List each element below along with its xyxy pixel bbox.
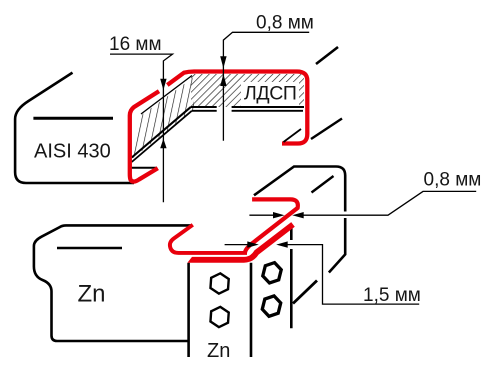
svg-text:0,8 мм: 0,8 мм — [256, 13, 314, 34]
svg-text:Zn: Zn — [78, 281, 106, 308]
svg-text:16 мм: 16 мм — [109, 34, 162, 55]
svg-text:Zn: Zn — [207, 340, 230, 362]
svg-text:1,5 мм: 1,5 мм — [363, 285, 421, 306]
svg-text:ЛДСП: ЛДСП — [244, 82, 297, 104]
svg-text:0,8 мм: 0,8 мм — [424, 169, 482, 190]
svg-text:AISI 430: AISI 430 — [34, 141, 111, 163]
